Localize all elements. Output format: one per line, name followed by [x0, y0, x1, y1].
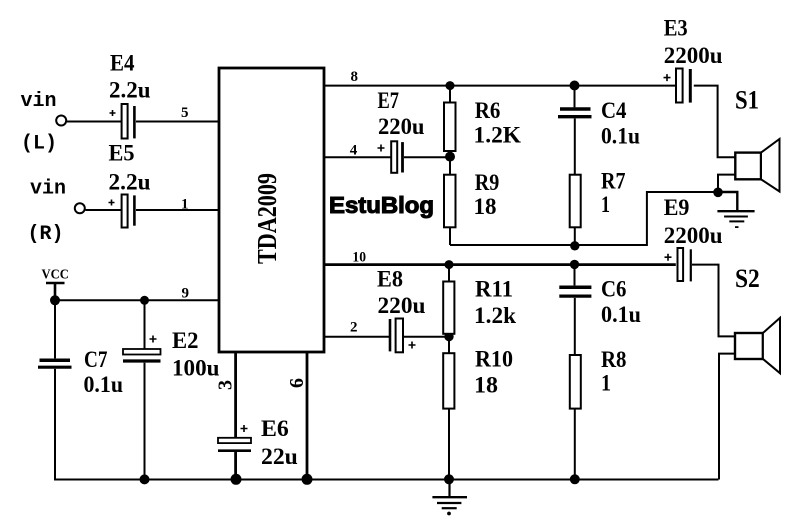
svg-text:E4: E4: [110, 51, 135, 76]
svg-text:3: 3: [215, 380, 237, 390]
svg-text:18: 18: [474, 373, 498, 398]
wire: [718, 175, 735, 192]
svg-text:1.2k: 1.2k: [474, 303, 516, 328]
capacitor E6: [218, 425, 251, 451]
capacitor E9: [665, 248, 691, 281]
label vin (L): [21, 90, 58, 156]
svg-text:4: 4: [350, 143, 358, 159]
node junction: [446, 81, 455, 90]
ground: [717, 192, 754, 227]
svg-text:E3: E3: [664, 16, 688, 41]
svg-text:1: 1: [601, 192, 610, 217]
svg-text:0.1u: 0.1u: [601, 302, 641, 327]
node vin (L) terminal: [56, 116, 66, 126]
capacitor E4: [110, 104, 135, 139]
wire pin 4: [324, 156, 391, 158]
node junction: [444, 474, 454, 484]
ground: [432, 480, 467, 516]
svg-text:E7: E7: [378, 88, 400, 113]
speaker S2: [735, 318, 780, 373]
capacitor C7: [38, 360, 72, 367]
svg-text:2.2u: 2.2u: [109, 77, 151, 102]
wire: [719, 354, 735, 480]
svg-text:2: 2: [350, 320, 358, 336]
node junction: [570, 260, 579, 269]
resistor R7: [570, 175, 581, 246]
svg-text:R6: R6: [475, 98, 501, 123]
svg-text:R11: R11: [475, 277, 513, 302]
resistor R8: [570, 355, 581, 480]
svg-text:VCC: VCC: [42, 268, 69, 283]
svg-text:EstuBlog: EstuBlog: [329, 192, 434, 218]
svg-text:220u: 220u: [378, 114, 425, 139]
svg-text:9: 9: [182, 286, 190, 302]
capacitor C6: [559, 264, 591, 355]
svg-text:E2: E2: [172, 328, 199, 353]
wire: [694, 86, 736, 158]
wire: [54, 300, 56, 358]
svg-text:6: 6: [286, 378, 308, 388]
capacitor C4: [558, 86, 592, 175]
wire pin 8 rail: [324, 85, 676, 87]
node junction: [302, 474, 313, 485]
capacitor E2: [123, 336, 161, 362]
node junction: [570, 241, 579, 250]
svg-text:0.1u: 0.1u: [601, 124, 640, 149]
node junction: [445, 260, 454, 269]
label vin (R): [28, 178, 67, 247]
wire: [404, 156, 450, 158]
capacitor E7: [378, 141, 403, 173]
wire feedback net: [450, 192, 718, 245]
node junction: [570, 474, 580, 484]
svg-text:18: 18: [474, 194, 497, 219]
capacitor E3: [664, 69, 691, 103]
op-amp U1 TDA2009: [219, 68, 324, 352]
svg-text:0.1u: 0.1u: [84, 372, 124, 397]
svg-text:R9: R9: [475, 170, 500, 195]
svg-text:vin: vin: [21, 90, 57, 113]
power VCC: [42, 268, 69, 301]
svg-text:vin: vin: [30, 178, 66, 201]
svg-text:R10: R10: [475, 347, 513, 372]
resistor R11: [443, 265, 454, 337]
node junction: [445, 152, 455, 162]
wire: [144, 300, 146, 349]
svg-text:22u: 22u: [261, 444, 298, 469]
capacitor E8: [390, 319, 416, 353]
node vin (R) terminal: [75, 203, 85, 213]
wire: [234, 452, 237, 480]
speaker S1: [735, 139, 779, 192]
svg-text:R7: R7: [601, 169, 626, 194]
svg-text:TDA2009: TDA2009: [252, 173, 282, 264]
wire: [136, 121, 219, 123]
svg-text:C6: C6: [601, 277, 627, 302]
svg-text:E5: E5: [109, 141, 135, 166]
node junction: [140, 474, 150, 484]
node junction: [231, 474, 242, 485]
svg-text:(R): (R): [28, 223, 64, 246]
svg-text:2200u: 2200u: [664, 43, 723, 68]
svg-text:E6: E6: [261, 416, 289, 441]
svg-text:2200u: 2200u: [664, 223, 723, 248]
resistor R6: [444, 86, 456, 157]
svg-text:220u: 220u: [378, 293, 426, 318]
svg-text:1: 1: [601, 371, 611, 396]
svg-text:S1: S1: [735, 86, 759, 115]
wire pin 10 rail: [324, 263, 676, 266]
svg-text:R8: R8: [601, 347, 627, 372]
svg-text:E8: E8: [377, 267, 403, 292]
svg-text:10: 10: [352, 250, 366, 266]
svg-text:8: 8: [351, 69, 359, 85]
svg-text:S2: S2: [735, 264, 760, 293]
svg-text:2.2u: 2.2u: [109, 170, 151, 195]
capacitor E5: [109, 195, 135, 228]
wire pin 6: [306, 352, 309, 480]
svg-text:5: 5: [181, 105, 189, 121]
wire pin 2: [324, 336, 389, 338]
node junction: [50, 295, 60, 305]
node junction: [140, 296, 149, 305]
wire bottom rail: [54, 479, 719, 481]
wire: [86, 209, 122, 211]
wire: [136, 209, 219, 211]
svg-text:1.2K: 1.2K: [474, 123, 522, 148]
node junction: [444, 332, 453, 341]
node junction: [713, 188, 723, 198]
svg-text:E9: E9: [664, 195, 690, 220]
wire: [144, 363, 146, 480]
wire: [692, 265, 735, 337]
svg-text:1: 1: [181, 197, 189, 213]
wire: [67, 121, 122, 123]
node junction: [570, 81, 580, 91]
resistor R10: [443, 337, 454, 481]
wire pin 9 rail: [55, 299, 219, 301]
resistor R9: [444, 157, 456, 245]
wire pin 3: [234, 352, 237, 438]
svg-text:C7: C7: [84, 347, 108, 372]
svg-text:(L): (L): [21, 133, 57, 156]
wire: [54, 369, 56, 481]
wire: [404, 336, 449, 338]
svg-text:100u: 100u: [172, 356, 220, 381]
svg-text:C4: C4: [601, 98, 627, 123]
